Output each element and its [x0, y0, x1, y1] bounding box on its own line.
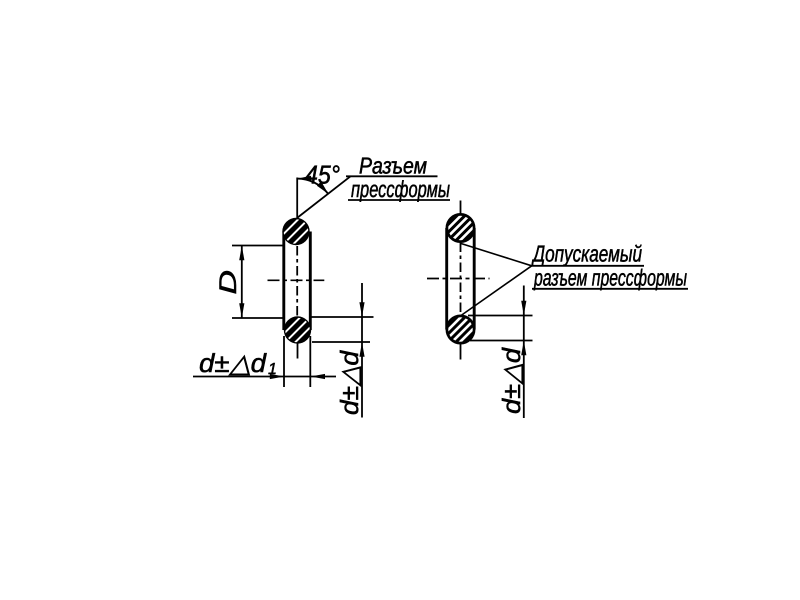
- right d+-dd arrow down: [521, 301, 526, 316]
- right d+-dd extension top: [468, 315, 533, 317]
- svg-text:разъем прессформы: разъем прессформы: [533, 265, 687, 291]
- extension line below right tangent: [309, 336, 311, 387]
- wire 45-degree leader: [297, 176, 351, 218]
- vertical centerline right ring: [460, 201, 462, 216]
- left d+-dd arrow down: [359, 302, 364, 317]
- angular dimension arc 45: [297, 179, 328, 194]
- dimension d+-dd1 line: [193, 376, 336, 378]
- svg-text:1: 1: [268, 361, 277, 378]
- horizontal centerline right ring: [427, 278, 490, 280]
- svg-text:d±△d: d±△d: [199, 348, 268, 378]
- svg-text:прессформы: прессформы: [351, 176, 450, 202]
- right ring left tangent line: [445, 228, 448, 330]
- arc arrowhead at leader end: [317, 181, 328, 194]
- leader line to top circle: [461, 244, 532, 266]
- horizontal centerline left ring: [268, 279, 325, 281]
- underline razyom pressformy: [532, 288, 688, 290]
- left d+-dd extension top: [311, 316, 374, 318]
- svg-text:d±△d: d±△d: [336, 350, 364, 415]
- d+-dd1 arrow right: [270, 374, 285, 379]
- right d+-dd arrow up: [521, 341, 526, 356]
- left ring left tangent line: [282, 232, 285, 331]
- right ring top cross-section circle (hatched light): [427, 194, 495, 262]
- arc arrowhead at centerline end: [297, 176, 311, 182]
- right ring right tangent line: [473, 228, 476, 330]
- left ring top cross-section circle (hatched dark): [265, 201, 327, 263]
- wire leader underline Razyom: [346, 175, 438, 177]
- right ring bottom cross-section circle (hatched light): [427, 296, 495, 364]
- left ring bottom cross-section circle (hatched dark): [267, 299, 329, 361]
- dimension D extension line top: [232, 245, 284, 247]
- dimension D line: [241, 246, 243, 319]
- svg-text:D: D: [215, 270, 242, 295]
- svg-text:Разъем: Разъем: [359, 153, 427, 179]
- svg-text:d±△d: d±△d: [498, 347, 526, 414]
- underline Dopuskaemyi: [530, 265, 644, 267]
- right d+-dd dimension line vertical: [523, 286, 525, 419]
- vertical centerline left ring: [296, 178, 298, 220]
- svg-text:45°: 45°: [305, 160, 340, 190]
- dimension D arrow down: [239, 303, 244, 318]
- dimension D extension line bottom: [232, 317, 284, 319]
- left d+-dd extension bottom: [312, 341, 370, 343]
- left d+-dd dimension line vertical: [361, 283, 363, 418]
- d+-dd1 arrow left: [311, 374, 326, 379]
- extension line below left tangent: [283, 336, 285, 387]
- leader line to bottom circle: [461, 266, 532, 316]
- svg-text:Допускаемый: Допускаемый: [531, 241, 642, 267]
- dimension D arrow up: [239, 246, 244, 261]
- underline pressformy: [348, 199, 450, 201]
- left d+-dd arrow up: [359, 342, 364, 357]
- right d+-dd extension bottom: [470, 340, 533, 342]
- left ring right tangent line: [309, 232, 312, 331]
